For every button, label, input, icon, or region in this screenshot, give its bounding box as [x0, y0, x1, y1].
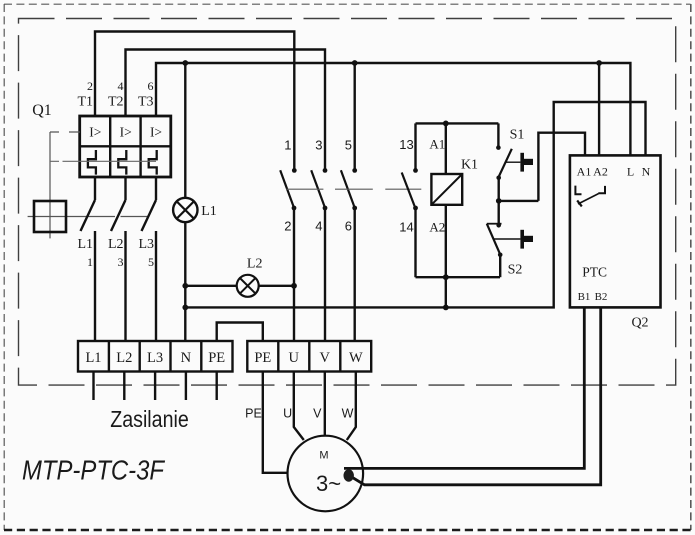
operator square of Q1 [34, 201, 66, 232]
svg-text:PTC: PTC [582, 265, 607, 280]
mechanical link stub to box [50, 131, 80, 133]
svg-text:PE: PE [208, 350, 225, 366]
wire PE bridge [217, 323, 263, 342]
svg-text:U: U [289, 350, 300, 366]
terminal strip motor [247, 341, 371, 372]
coil K1 [431, 174, 462, 205]
svg-text:L1: L1 [77, 237, 93, 252]
svg-text:I>: I> [150, 125, 162, 140]
svg-text:5: 5 [345, 138, 352, 153]
wire W to motor [347, 372, 356, 441]
wire lamp L2 branch [185, 285, 294, 287]
svg-text:S1: S1 [510, 128, 525, 143]
svg-text:B1: B1 [578, 291, 591, 303]
svg-text:B2: B2 [595, 291, 608, 303]
svg-text:1: 1 [87, 255, 93, 269]
wire PTC A1 [538, 133, 585, 201]
node junction rail3-A2 [596, 60, 602, 66]
wire coil A2 down to N rail [445, 205, 447, 308]
svg-text:PE: PE [245, 407, 262, 421]
svg-text:4: 4 [315, 219, 322, 234]
outer dashed page border bottom (bold) [4, 529, 691, 532]
wire lamp L1 to N terminal [184, 222, 186, 341]
motor M 3~ [288, 436, 364, 512]
svg-text:I>: I> [120, 125, 132, 140]
svg-text:L1: L1 [201, 204, 217, 219]
pole contact 2 of Q1 [111, 177, 126, 341]
mechanical link through thermal cells [50, 160, 156, 162]
node junction rail3-lamp [182, 60, 188, 66]
svg-text:L2: L2 [247, 257, 263, 272]
svg-text:M: M [319, 450, 328, 462]
svg-text:2: 2 [87, 79, 93, 93]
contactor linkage dashes [286, 188, 421, 190]
svg-text:A2: A2 [429, 220, 445, 235]
svg-text:6: 6 [148, 79, 154, 93]
supply stub PE [215, 372, 217, 401]
wire rail phase 1 (top) [95, 32, 294, 171]
mechanical link through pole contacts [28, 216, 148, 218]
svg-text:3~: 3~ [316, 471, 341, 496]
svg-text:L2: L2 [108, 237, 124, 252]
thermal release pole 2 [118, 150, 126, 175]
svg-text:Zasilanie: Zasilanie [110, 406, 189, 432]
wire rail phase 3 [156, 63, 630, 155]
svg-text:2: 2 [284, 219, 291, 234]
supply stub L1 [92, 372, 94, 401]
svg-text:S2: S2 [508, 263, 523, 278]
wire coil A1 [445, 123, 447, 174]
thermistor node in motor [344, 469, 354, 481]
node junction N rail at A2 of K1 [443, 305, 449, 311]
svg-text:V: V [313, 407, 322, 421]
node junction S1-S2-A1ptc [496, 198, 502, 204]
svg-text:W: W [349, 350, 363, 366]
supply stub N [185, 372, 187, 401]
svg-text:5: 5 [148, 255, 154, 269]
svg-text:K1: K1 [461, 158, 478, 173]
wire U to motor [294, 372, 304, 441]
svg-text:I>: I> [89, 125, 101, 140]
svg-text:3: 3 [315, 138, 322, 153]
node junction A1 coil [443, 121, 449, 127]
node junction lamp branch right [291, 283, 297, 289]
contactor contact 1-2 [280, 168, 296, 341]
wire junction to PTC A1 [499, 200, 539, 202]
node junction lamp branch left [182, 283, 188, 289]
svg-text:W: W [342, 407, 354, 421]
pushbutton S1 [496, 123, 533, 200]
svg-text:T1: T1 [77, 95, 93, 110]
contactor contact 3-4 [311, 168, 327, 341]
svg-text:L3: L3 [138, 237, 154, 252]
lamp L2 [237, 257, 263, 297]
svg-text:13: 13 [399, 137, 413, 152]
svg-text:Q1: Q1 [32, 102, 52, 119]
wire neutral rail [185, 102, 645, 307]
pushbutton S2 [487, 201, 533, 277]
svg-text:A1: A1 [429, 137, 445, 152]
svg-text:14: 14 [399, 220, 413, 235]
mechanical link vertical [49, 132, 51, 238]
wire PTC sensor B2 [349, 307, 601, 484]
wire branch to contact 5 [354, 63, 356, 170]
svg-text:PE: PE [254, 350, 271, 366]
wire PTC sensor B1 [344, 307, 584, 468]
wire branch to lamp L1 [184, 63, 186, 198]
wire branch to PTC A2 [598, 63, 600, 155]
thermal release pole 1 [88, 150, 96, 175]
pole contact 3 of Q1 [142, 177, 157, 341]
PTC relay box Q2 [570, 155, 661, 307]
thermal release pole 3 [149, 150, 157, 175]
lamp L1 [173, 198, 217, 222]
svg-text:U: U [283, 407, 292, 421]
svg-text:T2: T2 [108, 95, 124, 110]
svg-text:T3: T3 [138, 95, 154, 110]
wire PE to motor [263, 372, 288, 473]
pole contact 1 of Q1 [81, 177, 96, 341]
node junction rail3-contact5 [352, 60, 358, 66]
wire V to motor [324, 372, 326, 437]
svg-text:L1: L1 [85, 350, 101, 366]
terminal strip supply [78, 341, 233, 372]
breaker Q1 box [80, 116, 171, 177]
svg-text:N: N [181, 350, 192, 366]
svg-text:4: 4 [118, 79, 124, 93]
svg-text:L: L [627, 165, 634, 179]
svg-text:MTP-PTC-3F: MTP-PTC-3F [22, 455, 166, 486]
svg-text:N: N [642, 165, 651, 179]
contactor contact 5-6 [341, 168, 357, 341]
svg-text:3: 3 [118, 255, 124, 269]
wire K1 control top rail [416, 122, 499, 124]
relay output contact glyph [575, 186, 605, 207]
supply stub L2 [123, 372, 125, 401]
inner dashed enclosure boundary [19, 19, 676, 386]
wire rail phase 2 [126, 50, 326, 171]
aux contact 13-14 [402, 123, 418, 277]
svg-text:6: 6 [345, 219, 352, 234]
svg-text:1: 1 [284, 138, 291, 153]
node junction A2 bottom rail [443, 274, 449, 280]
svg-text:A1: A1 [577, 165, 592, 179]
svg-text:L2: L2 [116, 350, 132, 366]
svg-text:V: V [320, 350, 331, 366]
node junction N rail left [182, 305, 188, 311]
svg-text:A2: A2 [593, 165, 608, 179]
wire control bottom rail [416, 276, 501, 278]
svg-text:Q2: Q2 [631, 316, 648, 331]
supply stub L3 [154, 372, 156, 401]
svg-text:L3: L3 [147, 350, 163, 366]
